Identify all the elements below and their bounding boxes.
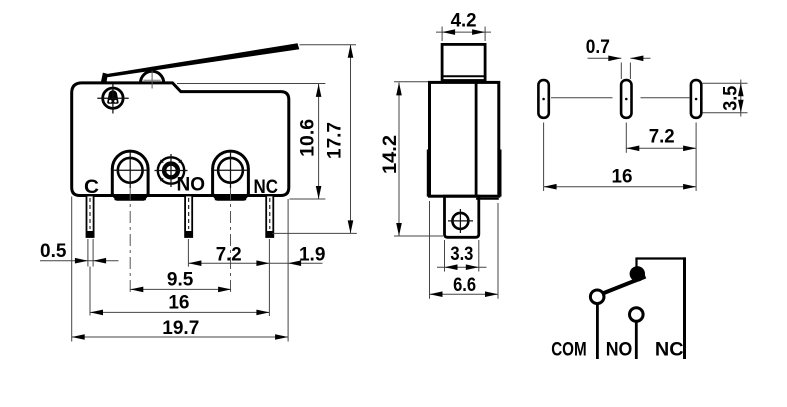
switch body outline xyxy=(72,83,289,196)
terminal C keyhole tab xyxy=(112,151,148,199)
extension line body right edge xyxy=(287,199,289,342)
terminal NO hole outer xyxy=(158,157,184,183)
svg-text:COM: COM xyxy=(551,340,587,361)
dim 1.9 line xyxy=(269,262,322,264)
extension line pin C center xyxy=(89,267,91,316)
svg-text:16: 16 xyxy=(168,292,189,313)
dim 7.2 extension lines xyxy=(625,123,627,153)
NO lead wire xyxy=(635,320,638,359)
svg-text:0.5: 0.5 xyxy=(40,241,67,262)
extension line body bottom for 10.6 xyxy=(290,198,326,200)
svg-text:7.2: 7.2 xyxy=(216,245,242,266)
dim 7.2 line xyxy=(188,262,269,264)
switch arm wire xyxy=(603,277,646,294)
dim 16 line xyxy=(90,311,269,313)
terminal C tab bottom edge xyxy=(115,197,146,200)
dim 16 line xyxy=(544,186,697,188)
svg-text:1.9: 1.9 xyxy=(299,245,325,266)
right side ridge xyxy=(499,150,501,197)
centerline hole NC extended xyxy=(230,188,232,293)
dim 0.7 line xyxy=(588,57,622,59)
svg-text:6.6: 6.6 xyxy=(453,275,476,296)
dim 17.7 line xyxy=(350,45,352,234)
svg-text:NO: NO xyxy=(177,175,206,196)
terminal NO diagonal ticks xyxy=(160,160,181,181)
NC lead wire xyxy=(683,257,686,359)
plunger button bump xyxy=(141,71,164,83)
svg-text:0.7: 0.7 xyxy=(586,37,610,58)
terminal NC tab bottom edge xyxy=(215,197,246,200)
dim 0.7 extension lines xyxy=(620,63,622,80)
tab hole crosshair xyxy=(448,220,473,222)
dim 9.5 line xyxy=(130,288,231,290)
svg-text:16: 16 xyxy=(612,167,633,188)
mounting hole inner latch shape xyxy=(107,90,118,104)
centerline hole C extended xyxy=(129,188,131,293)
dim 3.3 line xyxy=(437,266,487,268)
dim 3.3 extension lines xyxy=(444,240,446,272)
NO contact circle xyxy=(630,308,644,322)
COM lead wire xyxy=(596,302,599,359)
dim 0.5 line xyxy=(40,260,119,262)
dim 4.2 extension lines xyxy=(441,27,443,42)
pin C xyxy=(87,196,94,238)
pin NC xyxy=(266,196,273,238)
pin NO xyxy=(185,196,192,238)
body seam line xyxy=(475,82,478,196)
extension line pin C left edge xyxy=(87,239,89,267)
extension line lever tip for 17.7 xyxy=(300,44,357,46)
terminal NO crosshair xyxy=(155,170,188,172)
terminal NC keyhole tab xyxy=(213,151,249,199)
dim 6.6 extension lines xyxy=(429,201,431,299)
extension line body top for 10.6 xyxy=(177,83,325,85)
svg-text:NO: NO xyxy=(606,340,633,361)
mounting hole crosshair xyxy=(97,97,128,99)
dim 16 extension lines xyxy=(543,123,545,192)
extension line pin C right edge xyxy=(92,239,94,267)
svg-text:10.6: 10.6 xyxy=(298,119,319,157)
extension line body left edge xyxy=(71,197,73,342)
terminal NC hole xyxy=(218,158,243,183)
svg-text:9.5: 9.5 xyxy=(167,270,194,291)
svg-text:17.7: 17.7 xyxy=(325,122,346,159)
side view body xyxy=(430,82,499,196)
dim 7.2 line xyxy=(626,147,696,149)
dim 14.2 line xyxy=(398,82,400,236)
bottom right step line xyxy=(476,198,499,200)
side view plunger xyxy=(442,44,485,80)
dim 4.2 line xyxy=(436,31,491,33)
pins centerline xyxy=(551,97,613,99)
dim 3.5 extension lines xyxy=(703,82,748,84)
side terminal tab xyxy=(445,196,479,237)
terminal NO hole ring xyxy=(164,164,178,178)
button centerline xyxy=(151,67,153,89)
terminal NC crosshair xyxy=(213,169,248,171)
extension line pin NO center xyxy=(187,239,189,267)
pin slot middle xyxy=(621,80,631,118)
NC contact node (filled) xyxy=(630,266,645,281)
stub wire to top xyxy=(635,259,637,269)
svg-text:19.7: 19.7 xyxy=(162,318,199,339)
extension line pin bottom for 17.7 xyxy=(273,232,357,234)
plunger lip line xyxy=(442,75,485,77)
dim 14.2 extension lines xyxy=(394,81,428,83)
extension line pin NC center xyxy=(268,239,270,316)
mounting hole xyxy=(103,88,123,108)
dim 3.5 line xyxy=(740,80,742,117)
lever arm xyxy=(101,43,300,83)
left side ridge xyxy=(427,150,429,197)
terminal C crosshair xyxy=(113,169,148,171)
top wire xyxy=(635,257,685,259)
svg-text:NC: NC xyxy=(655,340,684,361)
terminal C hole xyxy=(118,158,143,183)
svg-text:14.2: 14.2 xyxy=(380,135,401,174)
svg-text:3.3: 3.3 xyxy=(450,244,473,265)
svg-text:4.2: 4.2 xyxy=(451,11,477,32)
pin slot left xyxy=(538,80,548,118)
dim 6.6 line xyxy=(430,293,499,295)
dim 19.7 line xyxy=(72,336,288,338)
COM contact circle xyxy=(590,290,604,304)
button horizontal centerline xyxy=(144,79,161,81)
dim 10.6 line xyxy=(318,84,320,199)
tab hole xyxy=(452,213,468,229)
svg-text:3.5: 3.5 xyxy=(721,85,742,110)
svg-text:7.2: 7.2 xyxy=(649,127,675,148)
pin slot right xyxy=(691,80,701,118)
